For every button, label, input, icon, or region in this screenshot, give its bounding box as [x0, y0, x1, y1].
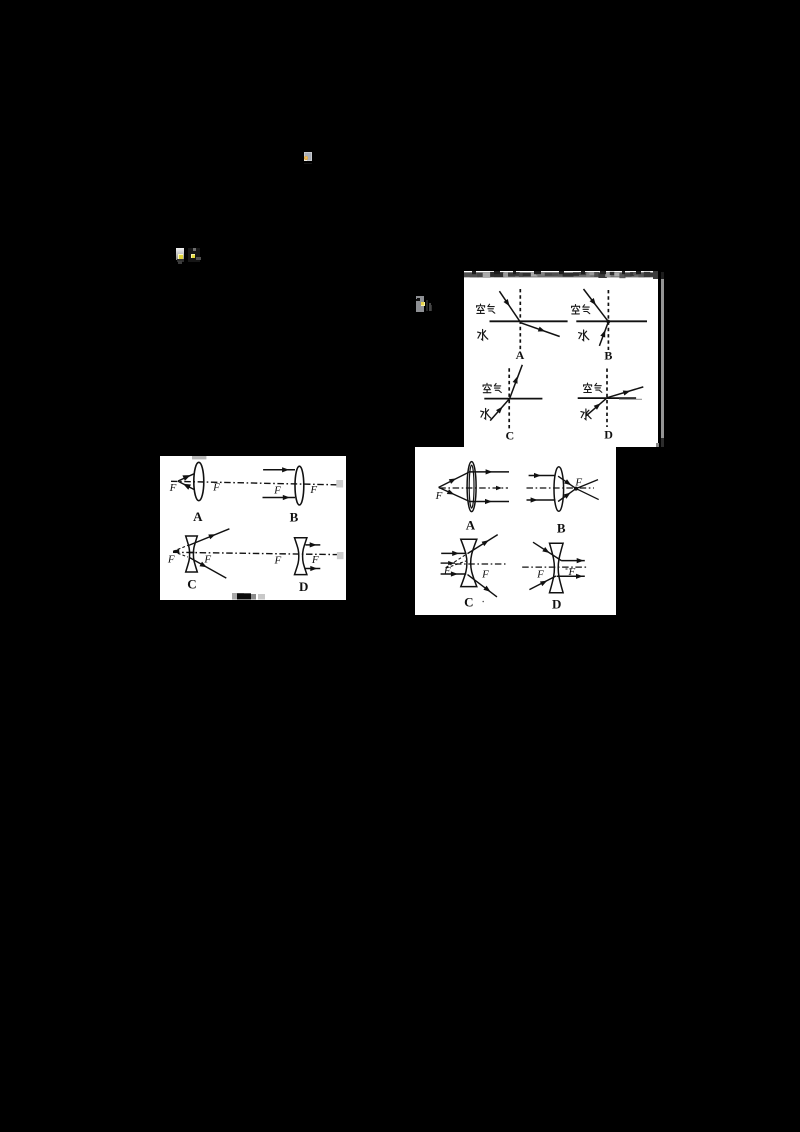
svg-text:F: F [481, 568, 489, 580]
svg-text:A: A [466, 517, 476, 532]
svg-text:F: F [203, 554, 211, 566]
svg-text:F: F [169, 482, 177, 494]
svg-text:B: B [290, 510, 299, 525]
svg-text:F: F [574, 476, 582, 488]
svg-text:D: D [299, 579, 308, 594]
svg-text:F: F [443, 565, 451, 577]
svg-text:D: D [552, 596, 561, 611]
svg-text:C: C [505, 429, 514, 443]
svg-text:A: A [516, 348, 525, 362]
svg-text:F: F [167, 553, 175, 565]
svg-text:F: F [567, 566, 575, 578]
svg-text:F: F [536, 569, 544, 581]
svg-text:A: A [193, 509, 203, 524]
svg-text:F: F [309, 484, 317, 496]
svg-text:F: F [273, 484, 281, 496]
svg-text:B: B [604, 349, 612, 363]
svg-text:F: F [212, 482, 220, 494]
svg-text:C: C [187, 577, 196, 592]
svg-text:C: C [464, 594, 473, 609]
svg-text:B: B [557, 520, 566, 535]
svg-text:F: F [435, 490, 443, 502]
svg-text:D: D [604, 428, 613, 442]
svg-text:F: F [311, 554, 319, 566]
svg-text:F: F [274, 554, 282, 566]
